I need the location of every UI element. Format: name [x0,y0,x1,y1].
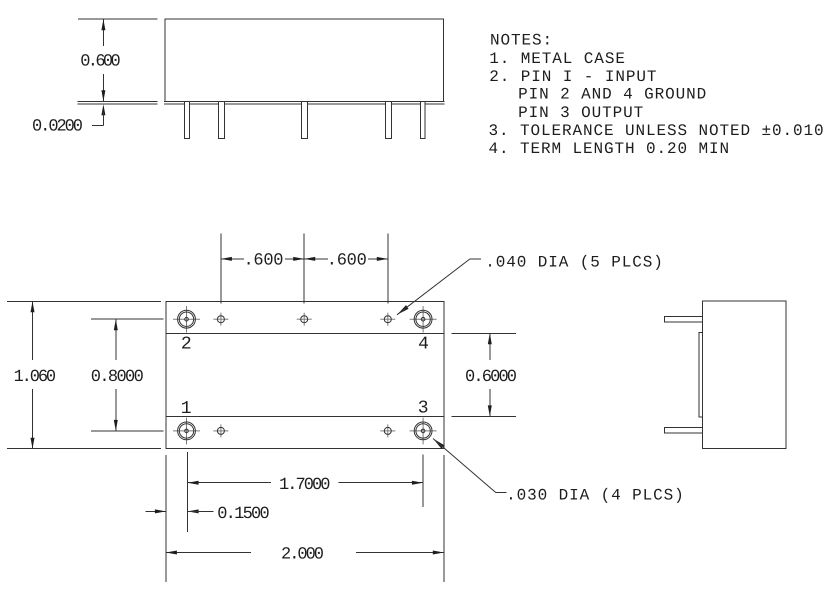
dim 0.600 arrow up [101,19,105,30]
dim 0.0200 leader horizontal [92,124,103,126]
dim .600 extension line c [387,234,389,304]
dim 0.1500 left arrow [155,509,166,513]
dim 1.7000 line right [338,482,423,484]
dim 2.000 arrow right [433,551,444,555]
pin hole bottom-1 circle [217,427,224,434]
dim 0.8000 extension top [91,318,163,320]
end view flange strip [699,333,703,417]
svg-text:1.7000: 1.7000 [279,476,331,495]
dim 1.060 line lower [32,389,34,449]
hole top-right circles [414,310,432,328]
hole bottom-right crosshair [410,418,437,445]
hole bottom-left crosshair [173,418,200,445]
hole bottom-left circles [178,422,196,440]
svg-text:4: 4 [418,334,429,354]
svg-text:3: 3 [418,399,429,419]
dim .600 arrows middle [293,257,315,261]
side view flange top line [164,100,444,102]
dim 0.8000 line lower [115,389,117,431]
plan view outline [166,301,444,448]
dim .600 arrow right [377,257,388,261]
svg-text:2. PIN I - INPUT: 2. PIN I - INPUT [489,68,657,86]
dim 1.7000 line left [188,482,271,484]
pin hole top-2 crosshair [297,313,312,326]
svg-text:PIN 3 OUTPUT: PIN 3 OUTPUT [518,104,644,122]
dim 0.600/0.0200 flange extension line upper [78,100,158,102]
hole top-left crosshair [173,306,200,333]
dim 0.6000 line lower [489,389,491,416]
svg-text:2.000: 2.000 [281,546,324,565]
hole top-right crosshair [410,306,437,333]
dim 1.060 arrow up [31,301,35,312]
dim .600 second line left [304,258,328,260]
side view pin 3 [302,101,308,138]
svg-text:0.0200: 0.0200 [32,117,83,136]
dim 0.1500 right line [188,510,214,512]
dim 1.7000 arrow right [412,481,423,485]
dim 0.6000 line upper [489,333,491,360]
end view pin top [664,316,702,322]
dim 0.600 line lower segment [102,74,104,101]
bottom extension line hole-right [422,454,424,507]
leader .040 diagonal [397,259,470,315]
dim 0.8000 extension bottom [91,430,163,432]
leader .040 horizontal [470,258,481,260]
dim .600 extension line b [303,234,305,304]
svg-text:0.8000: 0.8000 [91,368,144,387]
svg-text:0.600: 0.600 [80,52,121,71]
dim 0.600 line upper segment [102,19,104,46]
end view case body [703,301,786,449]
svg-text:2: 2 [181,334,192,354]
dim 0.0200 leader vertical [102,112,104,125]
dim 0.6000 extension top [451,332,516,334]
pin hole top-3 circle [384,316,391,323]
pin hole top-1 circle [217,316,224,323]
svg-text:.600: .600 [244,252,284,271]
dim 0.6000 arrow up [488,333,492,344]
dim 0.6000 extension bottom [451,415,516,417]
dim 0.600 top extension line [78,18,158,20]
svg-text:1. METAL CASE: 1. METAL CASE [489,50,626,68]
dim .600 arrow left [221,257,232,261]
bottom extension line rect-left [165,455,167,582]
svg-text:0.1500: 0.1500 [217,505,270,524]
bottom extension line hole-left [187,452,189,532]
pin hole top-3 crosshair [380,313,395,326]
end view pin bottom [664,428,702,434]
dim 1.060 extension bottom [7,448,161,450]
side view pin 1 [184,101,189,138]
leader .030 diagonal [433,439,496,493]
pin hole bottom-1 crosshair [213,424,228,437]
svg-text:PIN 2 AND 4 GROUND: PIN 2 AND 4 GROUND [518,86,707,104]
svg-text:.030 DIA (4 PLCS): .030 DIA (4 PLCS) [506,486,685,504]
dim 2.000 line left [166,552,251,554]
hole bottom-right circles [414,422,432,440]
side view flange bottom line [164,103,444,105]
dim .600 extension line a [220,234,222,304]
dim 0.0200 arrow up [101,104,105,115]
dim 0.1500 left outside line [145,510,166,512]
dim 1.060 arrow down [31,438,35,449]
dim 1.060 extension top [7,300,161,302]
dim .600 first line right [285,258,304,260]
svg-text:3. TOLERANCE UNLESS NOTED ±0.0: 3. TOLERANCE UNLESS NOTED ±0.010 [489,122,825,140]
dim 2.000 arrow left [166,551,177,555]
dim 0.6000 arrow down [488,405,492,416]
side view case body [165,19,443,102]
dim 0.1500 right arrow [188,509,199,513]
dim 0.8000 arrow up [114,319,118,330]
svg-text:.040 DIA (5 PLCS): .040 DIA (5 PLCS) [485,253,664,271]
dim .600 second line right [368,258,388,260]
notes text block [489,31,825,157]
dim 0.8000 arrow down [114,420,118,431]
leader .030 horizontal [496,492,506,494]
pin hole top-2 circle [301,316,308,323]
bottom extension line rect-right [443,455,445,582]
dim 0.8000 line upper [115,319,117,360]
plan view flange line bottom [166,415,444,417]
svg-text:1.060: 1.060 [14,368,57,387]
pin hole bottom-2 crosshair [380,424,395,437]
svg-text:.600: .600 [327,252,367,271]
hole top-left circles [178,310,196,328]
dim .600 first line left [221,258,244,260]
dim 2.000 line right [356,552,444,554]
side view pin 2 [219,101,225,138]
svg-text:NOTES:: NOTES: [490,31,553,49]
leader .030 arrow [433,439,444,449]
svg-text:4. TERM LENGTH 0.20 MIN: 4. TERM LENGTH 0.20 MIN [489,140,731,158]
dim 1.060 line upper [32,301,34,360]
leader .040 arrow [397,305,409,315]
side view pin 5 [421,101,426,138]
pin hole top-1 crosshair [213,313,228,326]
dim 0.0200 flange extension line lower [78,103,158,105]
side view pin 4 [386,101,392,138]
dim 0.600 arrow down [101,90,105,101]
pin hole bottom-2 circle [384,427,391,434]
svg-text:0.6000: 0.6000 [465,368,517,387]
svg-text:1: 1 [181,399,192,419]
dim 1.7000 arrow left [188,481,199,485]
plan view flange line top [166,332,444,334]
